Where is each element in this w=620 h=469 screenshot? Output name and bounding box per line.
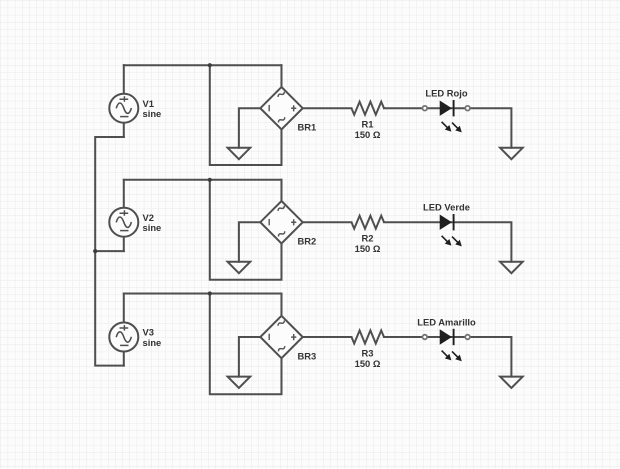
svg-text:R3: R3: [362, 347, 374, 358]
svg-text:R1: R1: [362, 119, 374, 130]
wire: BR3 plus pin to R3: [303, 336, 352, 338]
svg-text:150 Ω: 150 Ω: [355, 129, 381, 140]
voltage source V1 (sine): [109, 94, 138, 123]
wire: bridge BR1 minus pin to ground: [239, 108, 260, 148]
resistor R2 150 ohm: [352, 216, 385, 229]
wire: R2 through LED to right ground: [384, 222, 511, 262]
ground: BR2 minus terminal: [228, 262, 251, 273]
svg-text:BR1: BR1: [298, 122, 317, 133]
ground: BR1 minus terminal: [228, 148, 251, 159]
wire: V3 top to bridge BR3 top (net row 3): [124, 293, 282, 295]
terminal node: LED D3 cathode: [465, 335, 470, 340]
LED D1 (LED Rojo): [440, 100, 462, 132]
svg-text:sine: sine: [143, 108, 162, 119]
svg-text:BR2: BR2: [298, 236, 317, 247]
ground: BR3 minus terminal: [228, 377, 251, 388]
bridge rectifier BR3: [260, 316, 302, 358]
resistor R3 150 ohm: [352, 331, 385, 344]
wire: bridge BR3 minus pin to ground: [239, 337, 260, 377]
wire: bridge BR1 bottom pin ~ return loop: [210, 65, 282, 165]
ground: LED cathode return row 2: [500, 262, 523, 273]
svg-text:sine: sine: [143, 337, 162, 348]
wire: common negative bus (V1-V3): [95, 137, 124, 366]
wire: bridge BR1 pin ~ top stem: [281, 65, 283, 87]
LED D2 (LED Verde): [440, 214, 462, 246]
wire: V2 top to bridge BR2 top (net row 2): [124, 179, 282, 181]
junction: node row1 top: [208, 63, 212, 67]
voltage source V3 (sine): [109, 323, 138, 352]
wire: V1 negative terminal stem: [123, 123, 125, 137]
wire: bridge BR2 minus pin to ground: [239, 222, 260, 262]
wire: R3 through LED to right ground: [384, 337, 511, 377]
LED D3 (LED Amarillo): [440, 329, 462, 361]
svg-text:150 Ω: 150 Ω: [355, 243, 381, 254]
junction: node row2 top: [208, 178, 212, 182]
wire: bridge BR2 bottom pin ~ return loop: [210, 180, 282, 280]
svg-text:sine: sine: [143, 222, 162, 233]
wire: V2 negative terminal stem: [123, 237, 125, 251]
svg-text:150 Ω: 150 Ω: [355, 358, 381, 369]
wire: V3 positive terminal stem: [123, 294, 125, 323]
junction: node row3 top: [208, 291, 212, 295]
wire: bridge BR3 bottom pin ~ return loop: [210, 294, 282, 395]
resistor R1 150 ohm: [352, 102, 385, 115]
wire: V3 negative terminal stem: [123, 352, 125, 366]
wire: R1 through LED to right ground: [384, 108, 511, 148]
wire: V2 negative to bus: [95, 250, 124, 252]
terminal node: LED D1 anode: [423, 106, 428, 111]
wire: V2 positive terminal stem: [123, 180, 125, 208]
wire: BR1 plus pin to R1: [303, 107, 352, 109]
svg-text:LED Verde: LED Verde: [423, 202, 470, 213]
bridge rectifier BR2: [260, 201, 302, 243]
bridge rectifier BR1: [260, 87, 302, 129]
wire: V1 positive terminal stem: [123, 65, 125, 94]
wire: bridge BR2 pin ~ top stem: [281, 180, 283, 201]
terminal node: LED D1 cathode: [465, 106, 470, 111]
svg-text:R2: R2: [362, 233, 374, 244]
wire: bridge BR3 pin ~ top stem: [281, 294, 283, 316]
ground: LED cathode return row 1: [500, 148, 523, 159]
junction: V2 negative on bus: [93, 249, 97, 253]
voltage source V2 (sine): [109, 208, 138, 237]
ground: LED cathode return row 3: [500, 377, 523, 388]
svg-text:BR3: BR3: [298, 350, 317, 361]
svg-text:LED Amarillo: LED Amarillo: [417, 316, 476, 327]
svg-text:LED Rojo: LED Rojo: [425, 88, 467, 99]
wire: V1 top to bridge BR1 top (net row 1): [124, 64, 282, 66]
terminal node: LED D3 anode: [423, 335, 428, 340]
wire: BR2 plus pin to R2: [303, 221, 352, 223]
